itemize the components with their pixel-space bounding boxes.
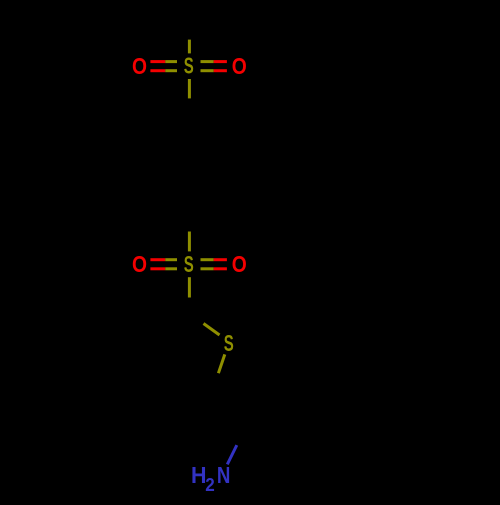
wire: S1=O left double bond upper line (150, 60, 165, 63)
wire: S2=O right double bond upper line (201, 258, 214, 261)
svg-text:S: S (224, 330, 234, 356)
wire: thiophene ring carbon skeleton (black, invisible on bg) (148, 314, 212, 392)
wire: S2=O left double bond lower line (150, 267, 165, 270)
svg-text:O: O (232, 251, 247, 277)
wire: thiophene C2 to S3 bond (S half) (204, 324, 220, 336)
wire: S1 to ring C1 bond (S half) (188, 79, 191, 98)
svg-text:H: H (191, 462, 207, 488)
wire: methyl C-S bond (S half) (188, 40, 191, 54)
svg-text:N: N (217, 462, 231, 488)
wire: S2=O left double bond upper line (150, 258, 165, 261)
svg-text:S: S (184, 53, 194, 79)
svg-text:2: 2 (205, 475, 215, 495)
wire: S2=O right double bond lower line (201, 267, 214, 270)
svg-text:O: O (132, 53, 147, 79)
wire: S1=O right double bond lower line (201, 69, 214, 72)
wire: ring C4 to S2 bond (S half) (188, 232, 191, 252)
svg-text:O: O (232, 53, 247, 79)
wire: S1=O left double bond lower line (150, 69, 165, 72)
wire: benzene ring carbon skeleton (black, invisible on bg) (147, 116, 233, 215)
svg-text:O: O (132, 251, 147, 277)
wire: S3 to thiophene C5 bond (S half) (218, 354, 224, 373)
wire: CH2 to N bond (N half) (227, 445, 237, 464)
svg-text:S: S (184, 251, 194, 277)
wire: S2 to thiophene C bond (S half) (188, 277, 191, 297)
wire: CH2 bonds (black, invisible on bg) (212, 392, 246, 446)
wire: S1=O right double bond upper line (201, 60, 214, 63)
